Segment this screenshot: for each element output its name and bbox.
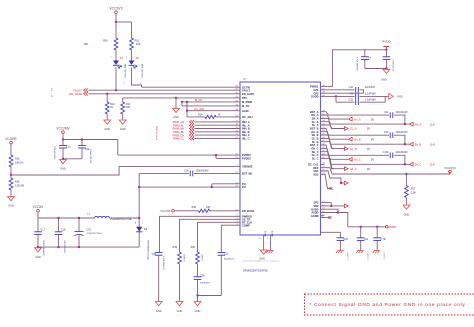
svg-text:GND: GND	[397, 95, 403, 99]
capacitor C19	[75, 218, 103, 247]
svg-text:SH_C: SH_C	[415, 163, 422, 167]
node junction	[340, 182, 342, 184]
wire	[115, 22, 117, 38]
svg-text:RED LED 0603: RED LED 0603	[141, 64, 143, 79]
svg-text:R10: R10	[103, 39, 108, 43]
svg-text:C16: C16	[184, 169, 189, 172]
svg-text:C11: C11	[384, 111, 389, 114]
wire	[10, 167, 12, 175]
wire GH_B net	[321, 132, 349, 140]
svg-text:EN_GATE: EN_GATE	[242, 92, 254, 96]
svg-text:X7R/16V/0402: X7R/16V/0402	[53, 146, 55, 160]
signal ground	[266, 251, 274, 254]
svg-text:VCORE: VCORE	[5, 137, 16, 141]
svg-text:C13b: C13b	[383, 151, 389, 154]
node junction	[335, 95, 337, 97]
power flag VCC5V	[33, 205, 45, 212]
svg-text:DRV8302HTSSOP56: DRV8302HTSSOP56	[243, 269, 268, 273]
wire GL_B net	[321, 138, 345, 148]
wire	[321, 217, 331, 219]
off-page connector PWM_CH	[172, 133, 194, 137]
ground	[381, 69, 390, 81]
wire	[116, 22, 132, 38]
off-page connector SO1	[345, 181, 349, 185]
wire SO1 arrow line	[341, 182, 344, 184]
wire	[139, 186, 212, 188]
svg-text:22nF/50V: 22nF/50V	[365, 86, 376, 89]
wire RT_CLK net	[198, 222, 241, 252]
svg-text:U7: U7	[243, 77, 247, 81]
part number text	[89, 149, 91, 164]
svg-text:C H2: C H2	[380, 238, 386, 241]
node junction	[404, 163, 406, 165]
capacitor C25	[337, 238, 349, 251]
off-page connector GH_C	[349, 157, 375, 161]
capacitor C16	[139, 169, 240, 176]
svg-text:[2,4]: [2,4]	[430, 164, 435, 167]
svg-text:VCC5V: VCC5V	[33, 205, 45, 209]
wire GL_A net	[321, 122, 345, 129]
wire SH_B net	[321, 135, 410, 144]
node junction	[10, 174, 12, 176]
svg-text:C19: C19	[87, 228, 92, 231]
svg-text:100nF/100V: 100nF/100V	[196, 169, 209, 172]
capacitor C22	[373, 227, 386, 251]
wire GND rail	[38, 246, 139, 248]
svg-text:SH_A: SH_A	[415, 122, 422, 126]
svg-text:GL_A: GL_A	[350, 127, 357, 131]
part number text	[63, 240, 65, 254]
power flag PVDD	[382, 40, 391, 50]
wire DVDD net	[348, 226, 386, 228]
wire GVDD net	[321, 95, 337, 97]
svg-text:GND: GND	[104, 127, 110, 131]
capacitor C14	[63, 140, 90, 159]
node junction	[57, 246, 59, 248]
node junction	[138, 186, 140, 188]
capacitor C11	[321, 111, 409, 124]
svg-text:1uF/PC 2: 1uF/PC 2	[366, 252, 368, 260]
svg-text:VCC3V3: VCC3V3	[109, 7, 122, 11]
wire GH_A net	[321, 115, 349, 119]
pin number 1	[126, 57, 127, 59]
wire	[63, 140, 118, 156]
svg-text:BST_C: BST_C	[310, 143, 319, 147]
node junction	[405, 173, 407, 175]
svg-text:1K: 1K	[218, 113, 221, 116]
wire DVDD pin	[321, 213, 348, 227]
off-page connector PWM_BH	[173, 127, 194, 131]
diode D3	[135, 222, 148, 232]
svg-text:CP1: CP1	[313, 88, 319, 92]
svg-text:GL_C: GL_C	[350, 167, 357, 171]
signal ground	[336, 251, 344, 254]
svg-text:C13: C13	[66, 146, 71, 149]
LED D1	[113, 57, 126, 79]
part number text	[383, 252, 385, 260]
node junction	[62, 138, 64, 140]
svg-text:INL_C: INL_C	[242, 137, 250, 141]
part number text	[147, 240, 150, 261]
wire	[321, 174, 332, 188]
part number text	[42, 240, 45, 256]
wire REF net	[321, 168, 450, 174]
part number text	[356, 57, 358, 71]
ground	[403, 205, 410, 216]
node junction	[78, 246, 80, 248]
node junction	[57, 217, 59, 219]
svg-text:BST_BK: BST_BK	[242, 172, 253, 176]
ground	[104, 120, 111, 131]
part text	[243, 260, 281, 263]
node junction	[360, 226, 362, 228]
svg-text:4.7uF/X5R/25V: 4.7uF/X5R/25V	[356, 57, 358, 71]
wire	[131, 50, 133, 61]
power flag VCC2MV	[56, 127, 70, 134]
svg-text:GL_C: GL_C	[312, 153, 319, 157]
svg-text:SL_A: SL_A	[312, 123, 319, 127]
no-connect X	[330, 187, 333, 190]
wire	[115, 68, 117, 91]
wire PWM_AL net	[195, 124, 241, 126]
op-amp U7 gate driver DRV8302	[235, 77, 325, 237]
off-page connector PWM_AL	[173, 123, 194, 127]
signal ground	[373, 251, 381, 254]
node junction	[385, 67, 387, 69]
svg-text:GND: GND	[404, 212, 410, 216]
part number text	[53, 146, 55, 160]
svg-text:100nF100V: 100nF100V	[395, 131, 408, 134]
svg-text:GCES/X5R/A4(E): GCES/X5R/A4(E)	[42, 240, 45, 256]
svg-text:GAIN: GAIN	[242, 109, 249, 113]
wire	[186, 102, 188, 117]
svg-text:VSENSE: VSENSE	[242, 165, 253, 169]
wire GL_C net	[321, 155, 345, 169]
page ref 3,4	[50, 88, 52, 91]
svg-text:47uF/25V/T343: 47uF/25V/T343	[87, 233, 103, 235]
net label M_OC	[195, 98, 203, 102]
svg-text:VCC3V3: VCC3V3	[444, 166, 456, 170]
node junction	[385, 49, 387, 51]
svg-text:1: 1	[126, 57, 127, 59]
svg-text:PWM_A..CL 3,4: PWM_A..CL 3,4	[155, 126, 158, 141]
node junction	[404, 123, 406, 125]
wire	[110, 217, 140, 219]
svg-text:1uF/PC 2: 1uF/PC 2	[383, 252, 385, 260]
capacitor C17	[34, 218, 45, 247]
node junction	[376, 226, 378, 228]
wire	[175, 98, 177, 108]
svg-text:M_PWM: M_PWM	[242, 100, 252, 104]
wire PH pin 1	[212, 184, 240, 187]
power flag VCC3V3 (top)	[109, 7, 122, 14]
svg-text:GH_B: GH_B	[354, 137, 361, 141]
off-page connector SH_C	[410, 162, 435, 166]
pin stub	[321, 163, 325, 165]
off-page connector EN_GATE	[69, 92, 88, 96]
off-page connector SH_A	[410, 122, 435, 126]
signal ground	[356, 251, 364, 254]
wire PWRGD net	[160, 216, 241, 252]
capacitor C23	[218, 252, 235, 295]
wire COMP net	[221, 225, 240, 252]
wire bottom pin AGND	[270, 235, 272, 250]
svg-text:R20: R20	[191, 246, 196, 249]
ground	[259, 250, 267, 261]
node junction	[181, 101, 183, 103]
node junction	[404, 143, 406, 145]
wire GH_C net	[321, 148, 349, 159]
node junction	[115, 21, 117, 23]
svg-text:OC_ADJ: OC_ADJ	[242, 115, 253, 119]
wire SL_A stub	[321, 125, 335, 129]
off-page connector PWM_AH	[173, 120, 194, 124]
svg-text:C25: C25	[344, 238, 349, 241]
resistor R10	[83, 38, 118, 50]
wire	[365, 68, 387, 70]
svg-text:GH_A: GH_A	[354, 117, 361, 121]
svg-text:1: 1	[110, 57, 111, 59]
wire PH pin 2	[212, 186, 240, 188]
off-page connector GL_C	[345, 167, 371, 171]
wire	[62, 134, 64, 140]
ground (right arrow)	[389, 94, 403, 100]
wire	[10, 144, 12, 155]
svg-text:DVDD: DVDD	[389, 225, 396, 229]
node junction	[81, 138, 83, 140]
wire PWM_AH net	[195, 121, 241, 123]
svg-text:[R]: [R]	[367, 168, 370, 171]
pin number 1	[110, 57, 111, 59]
wire SL_C stub	[321, 158, 335, 168]
svg-text:3,4: 3,4	[50, 88, 52, 91]
svg-text:C17: C17	[41, 229, 46, 232]
inductor L1	[87, 212, 132, 222]
wire bottom pin PGND	[263, 235, 265, 250]
svg-text:R18: R18	[192, 206, 197, 209]
wire SL_B stub	[321, 142, 335, 149]
off-page connector PWM_CL	[173, 137, 194, 141]
capacitor C13	[59, 140, 71, 159]
svg-text:[R]: [R]	[371, 159, 374, 162]
node junction	[106, 93, 108, 95]
wire M_PWM net	[182, 101, 240, 103]
wire M_OC net	[182, 105, 240, 107]
svg-text:6.8nF/50V: 6.8nF/50V	[200, 282, 210, 284]
net label OC_ADJ	[194, 107, 205, 111]
svg-text:C20: C20	[152, 253, 157, 256]
svg-text:2.2uF/X5R/16V: 2.2uF/X5R/16V	[162, 256, 164, 270]
wire	[216, 155, 240, 158]
svg-text:FAULT: FAULT	[242, 88, 251, 92]
node junction	[138, 217, 140, 219]
svg-text:GND: GND	[120, 127, 126, 131]
ground	[176, 302, 183, 313]
svg-text:1uF/PC 2: 1uF/PC 2	[346, 252, 348, 260]
svg-text:100nF100V: 100nF100V	[395, 111, 408, 114]
ground	[119, 120, 126, 131]
node junction	[196, 294, 198, 296]
resistor R11	[130, 38, 141, 50]
ground	[60, 160, 67, 171]
no-connect X	[329, 216, 332, 219]
wire GAIN net	[187, 110, 240, 112]
svg-text:R19: R19	[173, 246, 178, 249]
wire PVDD1 net	[321, 50, 387, 87]
node junction	[330, 205, 332, 207]
svg-text:RED LED 0603: RED LED 0603	[124, 64, 126, 79]
resistor R19	[173, 246, 185, 302]
pin number 2	[123, 83, 125, 85]
resistor R20	[191, 246, 203, 277]
wire FAULT net	[89, 89, 241, 91]
svg-text:PH: PH	[242, 185, 246, 189]
svg-text:SL_C: SL_C	[312, 157, 319, 161]
svg-text:GND: GND	[156, 309, 162, 313]
svg-text:[2,4]: [2,4]	[430, 143, 435, 146]
svg-text:10K: 10K	[83, 42, 88, 46]
resistor R15	[9, 155, 24, 167]
wire	[198, 295, 222, 297]
label R17	[411, 188, 416, 195]
svg-text:47uF/16V C8: 47uF/16V C8	[392, 60, 394, 73]
wire OCTW net	[142, 86, 241, 88]
off-page connector GH_B	[349, 137, 375, 141]
node junction	[186, 101, 188, 103]
wire PWM_BH net	[195, 128, 241, 130]
svg-text:R15: R15	[15, 158, 20, 161]
svg-text:DTC: DTC	[242, 96, 247, 100]
node junction	[337, 211, 339, 213]
resistor R18	[174, 206, 240, 213]
svg-text:PVDD: PVDD	[382, 40, 391, 44]
svg-text:GND: GND	[177, 309, 183, 313]
node junction	[78, 217, 80, 219]
ground	[8, 197, 15, 208]
node junction	[215, 154, 217, 156]
svg-text:10K/1%: 10K/1%	[201, 254, 203, 261]
svg-text:AGND: AGND	[311, 214, 319, 218]
wire	[10, 175, 12, 197]
ground	[35, 248, 42, 259]
wire SO1 jog	[321, 171, 342, 183]
ground	[194, 302, 201, 313]
svg-text:M_OC: M_OC	[195, 98, 203, 102]
note box	[305, 294, 474, 315]
svg-text:GND: GND	[60, 167, 66, 171]
svg-text:1K: 1K	[110, 106, 113, 109]
svg-text:GND: GND	[35, 255, 41, 259]
svg-text:PVDD1: PVDD1	[310, 85, 319, 89]
svg-text:R16: R16	[15, 181, 20, 184]
ground	[155, 302, 162, 313]
off-page connector SO2	[345, 204, 349, 208]
svg-text:100nF/X7R/16V: 100nF/X7R/16V	[89, 149, 91, 164]
svg-text:COMP: COMP	[242, 223, 250, 227]
wire PH node	[138, 173, 140, 247]
pin number 58	[267, 238, 269, 240]
svg-text:damore32_drv8302_v1.0_m14_4xx_: damore32_drv8302_v1.0_m14_4xx_1	[243, 260, 281, 263]
wire PWM_CH net	[195, 134, 241, 136]
resistor R12	[105, 94, 115, 120]
node junction	[186, 110, 188, 112]
svg-text:R14: R14	[198, 113, 203, 116]
svg-text:C18: C18	[61, 229, 66, 232]
wire SP2 net	[321, 203, 332, 206]
wire SN2 net	[321, 205, 345, 207]
svg-text:VCC2MV: VCC2MV	[56, 127, 70, 131]
wire EN_GATE net	[89, 93, 241, 95]
svg-text:C12: C12	[384, 131, 389, 134]
part number text	[346, 252, 348, 260]
off-page connector GL_A	[345, 127, 371, 131]
part number text	[366, 252, 368, 260]
capacitor C9	[336, 93, 389, 100]
svg-text:C21: C21	[364, 238, 369, 241]
svg-text:100pF/50V: 100pF/50V	[224, 259, 235, 261]
node junction	[211, 186, 213, 188]
svg-text:GND: GND	[8, 204, 14, 208]
capacitor C10	[321, 86, 376, 93]
ground	[173, 108, 180, 119]
wire	[321, 209, 339, 212]
svg-text:[R]: [R]	[371, 118, 374, 121]
svg-text:GND: GND	[195, 309, 201, 313]
svg-text:22uH/SRN7045-T220A: 22uH/SRN7045-T220A	[110, 218, 132, 221]
node junction	[175, 97, 177, 99]
svg-text:* Connect Signal GND and Power: * Connect Signal GND and Power GND in on…	[310, 302, 466, 307]
svg-text:10K: 10K	[206, 206, 211, 209]
svg-text:C24: C24	[200, 275, 205, 278]
svg-text:R11: R11	[135, 39, 140, 43]
svg-text:[R]: [R]	[371, 138, 374, 141]
net flag DVDD	[386, 225, 397, 229]
svg-text:C23: C23	[224, 252, 229, 255]
pin number 57	[259, 238, 262, 240]
svg-text:M_OC: M_OC	[242, 104, 250, 108]
svg-text:C15: C15	[349, 98, 354, 101]
svg-text:OC_ADJ: OC_ADJ	[194, 107, 205, 111]
svg-text:EN_GATE: EN_GATE	[69, 92, 82, 96]
svg-text:GH_C: GH_C	[354, 158, 361, 162]
off-page connector PWM_BL	[173, 130, 194, 134]
resistor R13	[121, 98, 131, 120]
LED D2	[129, 57, 143, 79]
capacitor C20	[152, 253, 164, 302]
wire	[132, 68, 142, 88]
svg-text:[R]: [R]	[367, 148, 370, 151]
pin stub	[321, 215, 325, 217]
svg-text:10K: 10K	[136, 42, 141, 46]
node on FAULT net	[115, 89, 117, 91]
wire PWM_BL net	[195, 131, 241, 133]
svg-text:VCCIN5: VCCIN5	[160, 209, 171, 213]
svg-text:GND: GND	[173, 115, 179, 119]
capacitor C7	[361, 50, 372, 69]
svg-text:220K/1%: 220K/1%	[183, 254, 185, 262]
svg-text:1.0uF/16V: 1.0uF/16V	[365, 98, 376, 101]
part name DRV8302	[243, 269, 268, 273]
svg-text:[R]: [R]	[367, 128, 370, 131]
wire PVDD2 net	[118, 154, 240, 156]
wire	[115, 14, 117, 23]
power flag VCC3V3 (right)	[444, 166, 456, 173]
capacitor C13b	[321, 145, 409, 164]
svg-text:GVDD: GVDD	[311, 95, 319, 99]
svg-text:AGND: AGND	[271, 231, 274, 237]
off-page connector FAULT	[74, 88, 89, 92]
svg-text:GH_A: GH_A	[311, 113, 318, 117]
